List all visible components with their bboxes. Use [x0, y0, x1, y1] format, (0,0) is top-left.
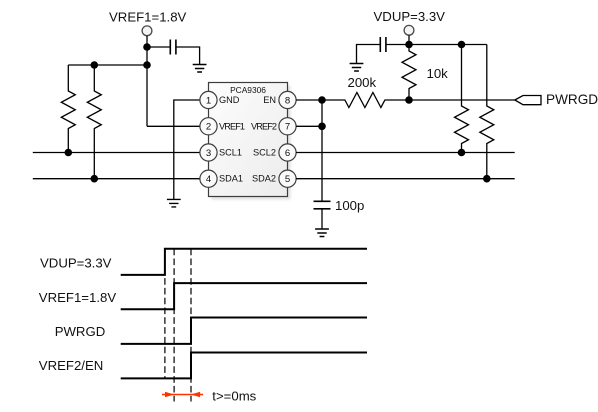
pin 5: [279, 170, 296, 187]
svg-text:3: 3: [206, 148, 211, 159]
ground pin1: [167, 199, 181, 207]
dimension line t: [162, 394, 203, 396]
wire pin1 to ground: [174, 100, 200, 199]
resistor R1: [61, 65, 75, 153]
op-amp U1 PCA9306 body shadow: [212, 86, 291, 200]
wire cap2 branch: [357, 45, 410, 64]
svg-text:PWRGD: PWRGD: [546, 92, 598, 107]
wire C3 to ground: [321, 209, 323, 229]
node R1-SCL1 junction: [65, 149, 73, 157]
svg-text:VREF2: VREF2: [251, 121, 277, 131]
wire SCL2 bus: [296, 152, 515, 154]
node rail-R2 junction: [91, 61, 99, 69]
supply terminal VREF1: [142, 26, 152, 36]
resistor R8: [480, 45, 494, 179]
wire pin7 to node: [296, 125, 322, 127]
arrowhead right-pointing: [165, 392, 174, 398]
svg-text:VDUP=3.3V: VDUP=3.3V: [374, 9, 446, 24]
node VDUP rail junction: [405, 41, 413, 49]
svg-text:SCL1: SCL1: [219, 148, 242, 158]
pin 4: [200, 170, 217, 187]
svg-text:8: 8: [285, 95, 290, 106]
pin 6: [279, 144, 296, 161]
ground C1: [193, 65, 207, 73]
svg-text:10k: 10k: [427, 66, 449, 81]
waveform VREF1: [121, 283, 367, 309]
node pin8 junction: [318, 96, 326, 104]
capacitor C1: [170, 40, 176, 55]
svg-text:PWRGD: PWRGD: [55, 324, 106, 339]
wire VDUP drop: [408, 35, 410, 44]
svg-text:GND: GND: [219, 95, 240, 105]
svg-text:5: 5: [285, 174, 290, 185]
pin 3: [200, 144, 217, 161]
svg-text:200k: 200k: [348, 75, 377, 90]
svg-text:VREF1=1.8V: VREF1=1.8V: [109, 10, 187, 25]
dashed guide line 3: [190, 249, 192, 402]
supply terminal VDUP: [404, 25, 414, 35]
svg-text:VREF1: VREF1: [219, 121, 245, 131]
svg-text:PCA9306: PCA9306: [230, 85, 266, 95]
wire left rail: [68, 64, 147, 66]
connector PWRGD: [515, 96, 541, 105]
node R8-SDA2 junction: [483, 175, 491, 183]
svg-text:VDUP=3.3V: VDUP=3.3V: [40, 256, 112, 271]
wire top right rail: [409, 44, 487, 46]
wire cap branch: [147, 47, 200, 65]
arrowhead left-pointing: [191, 392, 200, 398]
dashed guide line 2: [173, 249, 175, 402]
svg-text:SDA1: SDA1: [219, 174, 243, 184]
svg-text:SCL2: SCL2: [253, 148, 276, 158]
node VREF1-rail junction: [143, 61, 151, 69]
node R2-SDA1 junction: [91, 175, 99, 183]
pin 1: [200, 91, 217, 108]
ground C3: [315, 229, 329, 237]
svg-text:7: 7: [285, 122, 290, 133]
capacitor C2: [380, 37, 386, 52]
pin 2: [200, 118, 217, 135]
node R6 bottom junction: [405, 96, 413, 104]
resistor R6 10k: [402, 45, 416, 101]
svg-text:VREF1=1.8V: VREF1=1.8V: [39, 290, 117, 305]
node rail-R3 junction: [458, 41, 466, 49]
wire pin8 to node: [296, 99, 322, 101]
svg-text:VREF2/EN: VREF2/EN: [39, 358, 104, 373]
wire pin2 to VREF1: [147, 125, 200, 127]
pin 8: [279, 91, 296, 108]
resistor R2: [87, 65, 101, 179]
waveform VDUP: [121, 249, 367, 275]
wire VREF1 vertical: [146, 36, 148, 127]
svg-text:SDA2: SDA2: [252, 174, 276, 184]
op-amp U1 PCA9306 body: [209, 83, 288, 197]
wire PWRGD: [409, 99, 515, 101]
wire EN vertical to cap: [321, 100, 323, 201]
svg-text:2: 2: [206, 122, 211, 133]
node pin7 junction: [318, 123, 326, 131]
waveform VREF2/EN: [121, 353, 367, 379]
svg-text:t>=0ms: t>=0ms: [212, 388, 256, 403]
svg-text:1: 1: [206, 95, 211, 106]
wire SDA1 bus: [33, 178, 200, 180]
node R7-SCL2 junction: [458, 149, 466, 157]
capacitor C3 100p: [314, 201, 331, 209]
svg-text:6: 6: [285, 148, 290, 159]
wire SCL1 bus: [33, 152, 200, 154]
node VREF1-cap junction: [143, 43, 151, 51]
waveform PWRGD: [121, 318, 367, 344]
svg-text:EN: EN: [263, 95, 276, 105]
dashed guide line 1: [164, 249, 166, 379]
ground C2: [350, 64, 364, 72]
svg-text:4: 4: [206, 174, 212, 185]
resistor R5 200k: [322, 93, 409, 108]
wire SDA2 bus: [296, 178, 515, 180]
pin 7: [279, 118, 296, 135]
svg-text:100p: 100p: [335, 198, 364, 213]
resistor R7: [455, 45, 469, 153]
